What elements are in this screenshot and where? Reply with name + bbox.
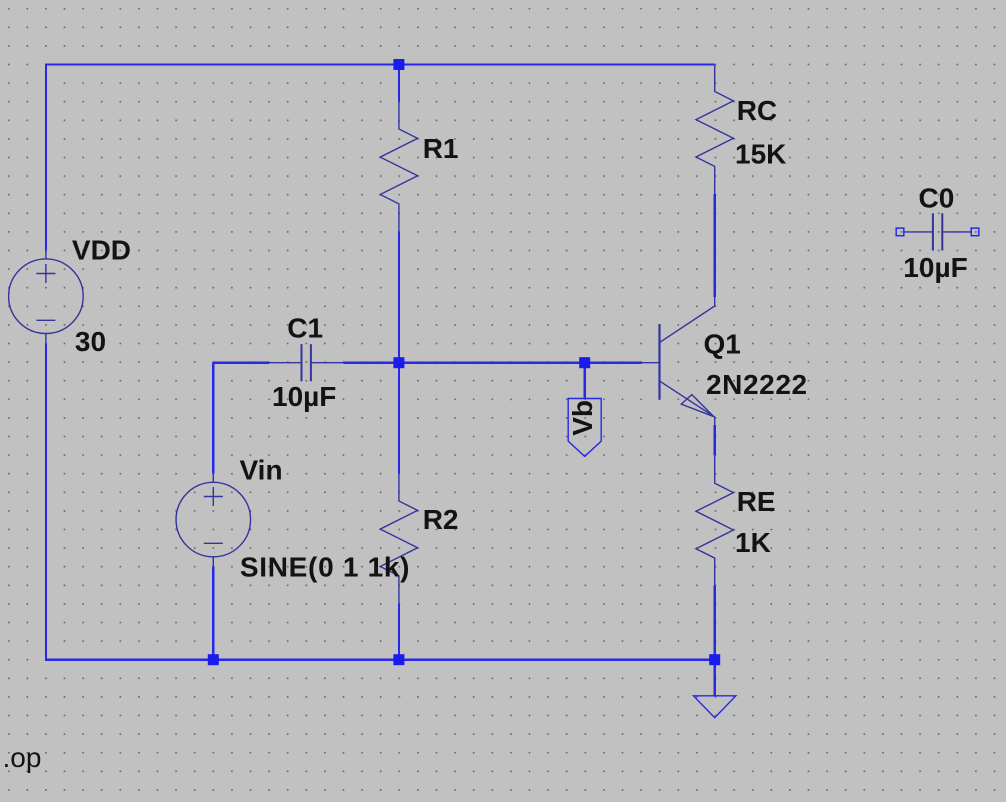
svg-text:1K: 1K: [735, 527, 771, 558]
wire R1 top lead to top rail: [398, 65, 400, 102]
svg-text:Vb: Vb: [567, 400, 598, 436]
resistor RE zigzag: [696, 456, 733, 586]
capacitor C1 plates and leads: [269, 344, 344, 381]
junction node at bottom rail / RE / ground: [709, 654, 720, 665]
transistor Q1 NPN symbol: [642, 297, 715, 425]
svg-text:C1: C1: [287, 313, 323, 344]
svg-text:Q1: Q1: [704, 329, 741, 360]
pin marker C0 left unconnected pin: [896, 228, 904, 236]
wire base node to Q1 base: [399, 362, 642, 364]
wire bottom rail (ground net): [46, 659, 715, 661]
wire Vin - pin to bottom rail: [212, 567, 214, 661]
wire R2 bottom to bottom rail: [398, 603, 400, 659]
wire R1 bottom to base node: [398, 231, 400, 362]
wire Vb tap stub: [584, 363, 586, 399]
svg-text:Vin: Vin: [240, 455, 283, 486]
svg-text:C0: C0: [919, 183, 955, 214]
svg-text:RC: RC: [737, 95, 777, 126]
wire top rail from VDD column to RC column: [46, 63, 715, 65]
junction node at base wire / Vb tap: [579, 357, 590, 368]
resistor R2 zigzag: [380, 474, 417, 604]
svg-text:RE: RE: [737, 486, 776, 517]
pin marker C0 right unconnected pin: [971, 228, 979, 236]
wire ground stub below bottom rail: [714, 660, 716, 696]
wire RE bottom to bottom rail: [714, 586, 716, 660]
junction node at top rail / R1: [393, 59, 404, 70]
wire left rail upper (top rail down to VDD + pin): [45, 63, 47, 250]
svg-text:2N2222: 2N2222: [706, 369, 808, 400]
net flag Vb (pentagon label pointing down): [568, 399, 601, 457]
wire C1 left to Vin column: [213, 362, 269, 364]
wire Vin column down to Vin + pin: [212, 363, 214, 474]
wire left rail lower (VDD - pin down to bottom rail): [45, 344, 47, 661]
junction node at C1 / R1 / R2 / base: [393, 357, 404, 368]
wire base node down to R2 top: [398, 363, 400, 474]
junction node at bottom rail / R2: [393, 654, 404, 665]
svg-text:10µF: 10µF: [903, 252, 967, 283]
junction node at bottom rail / Vin: [208, 654, 219, 665]
resistor RC zigzag: [696, 65, 733, 194]
voltage source Vin symbol (circle with plus and minus): [176, 474, 251, 567]
svg-text:VDD: VDD: [72, 235, 131, 266]
wire Q1 emitter to RE top: [714, 425, 716, 456]
wire C1 right to R1/R2 node: [344, 362, 399, 364]
svg-text:10µF: 10µF: [272, 381, 336, 412]
svg-text:SINE(0 1 1k): SINE(0 1 1k): [240, 552, 410, 583]
svg-text:.op: .op: [3, 742, 42, 773]
svg-text:R2: R2: [423, 504, 459, 535]
wire RC bottom to Q1 collector: [714, 194, 716, 297]
ground symbol (triangle): [694, 696, 736, 718]
svg-text:15K: 15K: [735, 138, 786, 169]
svg-text:R1: R1: [423, 133, 459, 164]
resistor R1 zigzag: [380, 102, 417, 232]
capacitor C0 plates and leads (floating): [904, 213, 971, 250]
voltage source VDD symbol (circle with plus and minus): [9, 251, 84, 344]
svg-text:30: 30: [75, 326, 106, 357]
